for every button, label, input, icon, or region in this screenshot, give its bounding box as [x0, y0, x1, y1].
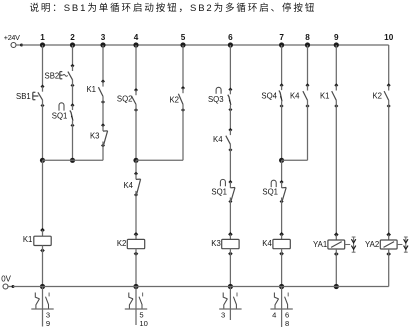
- caption text: [30, 2, 317, 14]
- svg-text:K2: K2: [372, 92, 382, 101]
- svg-text:10: 10: [139, 319, 147, 328]
- contact cross-reference K3: [219, 287, 241, 321]
- svg-text:SQ1: SQ1: [52, 112, 68, 121]
- svg-text:K3: K3: [211, 239, 221, 248]
- wire col9 YA1 to 0V bus: [335, 254, 337, 287]
- wire col10 bus drop: [388, 45, 390, 85]
- wire merge cols 4-5: [136, 159, 183, 161]
- junction col7 merge: [279, 158, 284, 163]
- node 1 label: [40, 33, 45, 42]
- node 10 label: [384, 33, 394, 42]
- junction top bus col 3: [100, 42, 105, 47]
- wire col1 K1 to 0V bus: [42, 251, 44, 287]
- wire col2 SB2 to SQ1: [72, 85, 74, 105]
- wire col1 node to K1 coil: [42, 160, 44, 230]
- svg-text:YA1: YA1: [313, 240, 327, 249]
- limit switch SQ2: [117, 88, 138, 112]
- wire col6 K3 to 0V bus: [229, 254, 231, 287]
- svg-text:K2: K2: [169, 96, 179, 105]
- pushbutton SB2: [45, 64, 75, 88]
- node 3 label: [101, 33, 106, 42]
- svg-text:10: 10: [384, 33, 394, 42]
- junction top bus col 9: [334, 42, 339, 47]
- wire merge cols 1-3: [43, 159, 104, 161]
- wire col7 node to SQ1: [281, 160, 283, 182]
- wire merge cols 7-8: [282, 159, 308, 161]
- wire col10 YA2 to 0V bus: [388, 254, 390, 287]
- svg-text:SQ1: SQ1: [211, 188, 227, 197]
- limit switch SQ1 (col2): [52, 103, 75, 128]
- svg-text:K1: K1: [86, 85, 96, 94]
- svg-text:3: 3: [221, 311, 225, 320]
- relay coil K3: [211, 232, 239, 256]
- wire col3 bus to K1 contact: [102, 45, 104, 81]
- svg-text:4: 4: [272, 311, 276, 320]
- svg-text:K1: K1: [320, 92, 330, 101]
- contact K2 (col5): [169, 86, 185, 112]
- junction top bus col 7: [279, 42, 284, 47]
- wire col4 bus to SQ2: [135, 45, 137, 90]
- limit switch SQ1 NC (col7): [262, 180, 286, 204]
- svg-text:6: 6: [228, 33, 233, 42]
- junction top bus col 4: [133, 42, 138, 47]
- wire col1 SB1 to node: [42, 106, 44, 161]
- junction col1 0V bus: [40, 284, 45, 289]
- svg-text:K3: K3: [90, 132, 100, 141]
- junction col1 merge: [40, 158, 45, 163]
- svg-text:SB1: SB1: [16, 92, 31, 101]
- limit switch SQ3: [208, 87, 232, 111]
- junction col2 merge: [70, 158, 75, 163]
- wire col7 SQ4 to node: [281, 106, 283, 160]
- wire col8 K4 to merge corner: [307, 106, 309, 160]
- wire col7 bus to SQ4: [281, 45, 283, 85]
- svg-text:K4: K4: [123, 181, 133, 190]
- contact cross-reference K1: [31, 287, 53, 328]
- contact K2 (col10): [372, 83, 390, 108]
- node 2 label: [70, 33, 75, 42]
- relay coil K1: [23, 228, 51, 253]
- contact K4 (col6): [213, 128, 232, 152]
- svg-text:9: 9: [46, 319, 50, 328]
- svg-text:SQ1: SQ1: [262, 188, 278, 197]
- wire col6 SQ1 to K3 coil: [229, 202, 231, 235]
- node 9 label: [334, 33, 339, 42]
- node 6 label: [228, 33, 233, 42]
- junction top bus col 6: [228, 42, 233, 47]
- wire col3 K1 to K3: [102, 102, 104, 125]
- svg-text:7: 7: [279, 33, 284, 42]
- suppressor symbol YA2: [397, 237, 408, 253]
- limit switch SQ4: [261, 83, 283, 108]
- junction col4 0V bus: [133, 284, 138, 289]
- svg-text:K4: K4: [213, 135, 223, 144]
- junction top bus col 5: [180, 42, 185, 47]
- svg-text:K4: K4: [290, 92, 300, 101]
- wire col1 bus to SB1: [42, 45, 44, 87]
- wire col2 bus to SB2: [72, 45, 74, 66]
- svg-text:SQ3: SQ3: [208, 95, 224, 104]
- svg-text:1: 1: [40, 33, 45, 42]
- contact K1 (col3): [86, 79, 105, 104]
- svg-text:5: 5: [181, 33, 186, 42]
- node 8 label: [305, 33, 310, 42]
- wire col9 bus to K1 contact: [335, 45, 337, 85]
- wire col8 bus to K4 contact: [307, 45, 309, 85]
- junction col9 0V bus: [334, 284, 339, 289]
- svg-text:K1: K1: [23, 235, 33, 244]
- wire col6 SQ3 to K4: [229, 110, 231, 130]
- wire col7 K4 to 0V bus: [281, 254, 283, 287]
- junction col6 0V bus: [228, 284, 233, 289]
- solenoid coil YA1: [313, 232, 345, 256]
- +24V supply terminal: [4, 33, 23, 47]
- wire col6 bus to SQ3: [229, 45, 231, 90]
- contact cross-reference K2: [125, 287, 148, 328]
- wire col2 SQ1 to node: [72, 125, 74, 160]
- contact K4 NC (col4): [123, 172, 140, 197]
- 0V supply terminal: [1, 274, 14, 289]
- wire col6 K4 to SQ1: [229, 150, 231, 182]
- solenoid coil YA2: [365, 232, 397, 256]
- svg-text:0V: 0V: [1, 274, 11, 283]
- svg-text:说明：SB1为单循环启动按钮，SB2为多循环启、停按钮: 说明：SB1为单循环启动按钮，SB2为多循环启、停按钮: [30, 2, 317, 14]
- wire col4 K4 to K2 coil: [135, 195, 137, 234]
- svg-text:8: 8: [285, 319, 289, 328]
- svg-text:9: 9: [334, 33, 339, 42]
- limit switch SQ1 NC (col6): [211, 179, 235, 203]
- contact K3 NC (col3): [90, 123, 108, 147]
- junction col4 merge: [133, 158, 138, 163]
- svg-text:2: 2: [70, 33, 75, 42]
- relay coil K4: [262, 232, 290, 256]
- svg-text:YA2: YA2: [365, 240, 379, 249]
- junction col7 0V bus: [279, 284, 284, 289]
- svg-text:8: 8: [305, 33, 310, 42]
- svg-text:SQ4: SQ4: [261, 92, 277, 101]
- svg-text:SQ2: SQ2: [117, 95, 133, 104]
- svg-text:+24V: +24V: [4, 33, 20, 42]
- node 7 label: [279, 33, 284, 42]
- svg-text:4: 4: [134, 33, 139, 42]
- svg-text:K4: K4: [262, 239, 272, 248]
- contact K4 (col8): [290, 83, 310, 108]
- relay coil K2: [117, 232, 145, 256]
- wire col5 K2 to merge corner: [182, 110, 184, 160]
- suppressor symbol YA1: [345, 237, 356, 253]
- junction top bus col 8: [305, 42, 310, 47]
- junction top bus col 2: [70, 42, 75, 47]
- wire +24V top bus: [22, 44, 389, 46]
- wire 0V bottom bus: [13, 286, 389, 288]
- svg-text:K2: K2: [117, 239, 127, 248]
- node 5 label: [181, 33, 186, 42]
- wire col5 bus to K2 contact: [182, 45, 184, 88]
- junction top bus col 1: [40, 42, 45, 47]
- wire col4 K2 to 0V bus: [135, 254, 137, 287]
- contact K1 (col9): [320, 83, 338, 108]
- pushbutton SB1: [16, 85, 45, 108]
- node 4 label: [134, 33, 139, 42]
- wire col3 K3 to merge corner: [102, 146, 104, 161]
- contact cross-reference K4: [270, 287, 292, 328]
- wire col4 node to K4: [135, 160, 137, 173]
- wire col7 SQ1 to K4 coil: [281, 202, 283, 235]
- wire col4 SQ2 to node: [135, 110, 137, 160]
- wire col10 K2 to YA2 coil: [388, 106, 390, 235]
- svg-text:SB2: SB2: [45, 72, 60, 81]
- svg-text:3: 3: [101, 33, 106, 42]
- wire col9 K1 to YA1 coil: [335, 106, 337, 235]
